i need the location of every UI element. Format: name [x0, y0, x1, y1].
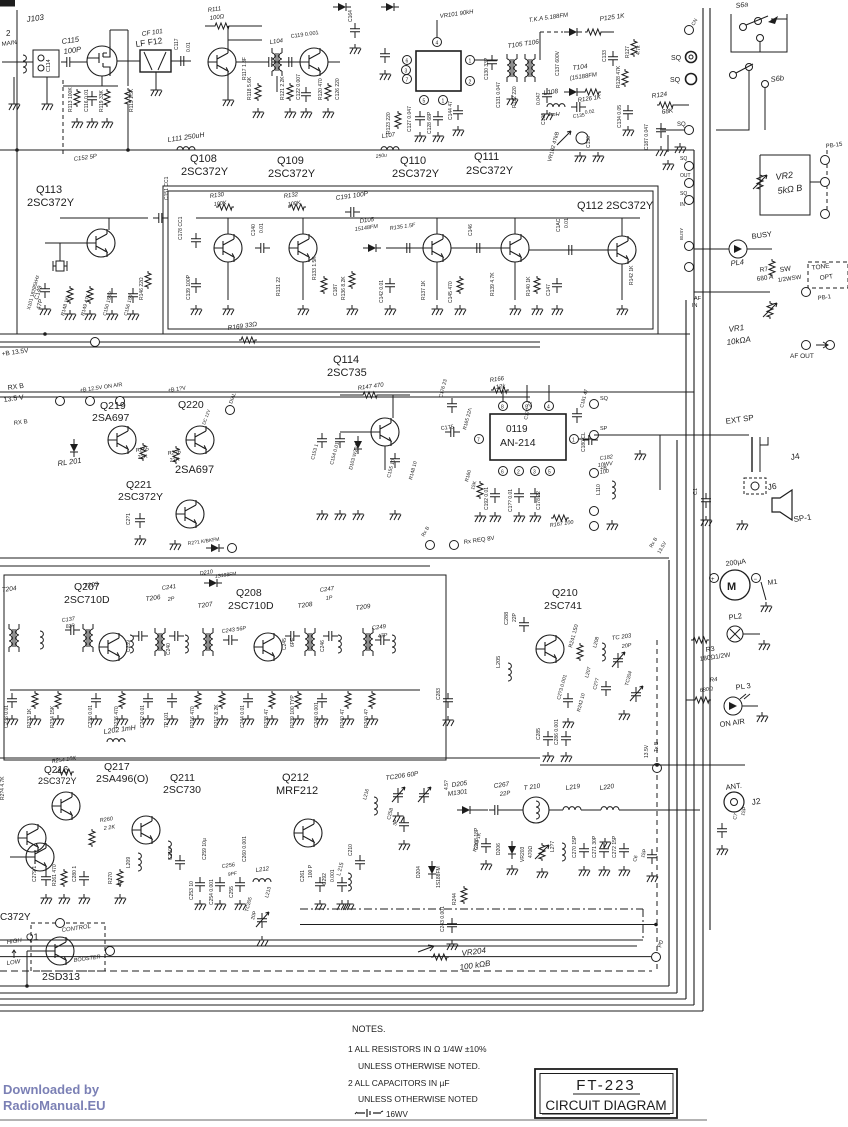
- pot VR1 arrow: [763, 303, 777, 317]
- connector J103 body: [33, 50, 59, 77]
- resistor R124: [657, 102, 675, 108]
- resistor R149: [87, 286, 93, 304]
- svg-text:C210: C210: [348, 844, 354, 856]
- wire pin4 up: [436, 20, 438, 37]
- svg-text:Tx B: Tx B: [654, 741, 660, 752]
- ground emitter net 11: [293, 715, 305, 725]
- svg-text:SP: SP: [600, 426, 608, 432]
- wire qif2 e: [302, 262, 304, 300]
- pad AFOUT: [802, 341, 811, 350]
- ground r270: [115, 894, 127, 904]
- ground C147: [552, 305, 564, 315]
- ground tc204: [619, 710, 631, 720]
- wire vcc drop: [127, 30, 129, 86]
- ground emitter net 12: [317, 715, 329, 725]
- trimmer TC206a: [392, 787, 405, 803]
- trimmer C136 body: [576, 132, 588, 144]
- svg-text:C130 33P: C130 33P: [484, 57, 490, 80]
- pad IN: [685, 196, 694, 205]
- resistor emitter net 10: [269, 691, 275, 709]
- meter plus: [710, 574, 719, 583]
- pad afout2: [826, 341, 835, 350]
- capacitor C133: [608, 51, 618, 66]
- pin 1 right: [466, 56, 475, 65]
- resistor R167: [551, 515, 569, 521]
- transistor Q219 sym: [108, 426, 136, 454]
- capacitor C283: [443, 693, 453, 708]
- capacitor C286: [561, 731, 571, 746]
- resistor emitter net 7: [195, 691, 201, 709]
- capacitor C7 sym: [717, 823, 727, 838]
- svg-text:2SC710D: 2SC710D: [64, 594, 110, 606]
- pot VR203 arrow: [535, 845, 549, 859]
- coil L111: [177, 147, 195, 150]
- pin 3b: [531, 467, 540, 476]
- svg-text:2SC372Y: 2SC372Y: [38, 776, 77, 786]
- svg-text:C255: C255: [229, 886, 235, 898]
- capacitor C176: [447, 398, 457, 413]
- coil extra2: [130, 635, 133, 653]
- coil L215 sym: [348, 873, 351, 891]
- svg-text:2 ALL CAPACITORS IN µF: 2 ALL CAPACITORS IN µF: [348, 1078, 450, 1088]
- bus vertical x669: [668, 560, 670, 986]
- pad +B pad3: [116, 397, 125, 406]
- capacitor C120: [263, 57, 278, 67]
- pin 2b: [515, 467, 524, 476]
- ground T105: [507, 95, 519, 105]
- svg-text:AF: AF: [694, 296, 702, 302]
- ground c270: [579, 866, 591, 876]
- capacitor C179: [530, 488, 540, 503]
- pad SP pad: [590, 431, 599, 440]
- wire q113 coll up: [108, 218, 110, 230]
- ground c272: [619, 866, 631, 876]
- capacitor C175: [445, 427, 460, 437]
- wire pin4 up: [548, 385, 550, 401]
- pad tone pad: [802, 288, 811, 297]
- ground emitter net 8: [217, 715, 229, 725]
- wire pad link: [667, 135, 669, 152]
- transistor Q215 sym: [26, 843, 54, 871]
- resistor R123: [395, 111, 401, 129]
- transistor Q108 sym: [208, 48, 236, 76]
- svg-text:C259 10µ: C259 10µ: [202, 838, 208, 860]
- svg-text:C246: C246: [320, 640, 326, 652]
- trimmer TC206b: [418, 787, 431, 803]
- pin 7b: [475, 435, 484, 444]
- svg-text:R115 1.5K: R115 1.5K: [129, 88, 135, 112]
- trimmer TC204: [630, 686, 643, 702]
- wire q1 drop: [26, 951, 28, 986]
- svg-text:R137 1K: R137 1K: [421, 280, 427, 300]
- svg-text:C286 0.001: C286 0.001: [554, 719, 560, 745]
- svg-text:SQ: SQ: [671, 55, 682, 62]
- resistor R138: [457, 276, 463, 294]
- svg-text:Q219: Q219: [100, 400, 126, 412]
- svg-text:C283: C283: [436, 688, 442, 700]
- ground an4: [530, 512, 542, 522]
- ground an3: [514, 512, 526, 522]
- wire strip rail drop3: [436, 218, 438, 234]
- svg-text:Q108: Q108: [190, 153, 217, 165]
- svg-text:C192 0.01: C192 0.01: [484, 487, 490, 510]
- connector J6 box: [744, 478, 766, 494]
- svg-text:Q211: Q211: [170, 772, 195, 784]
- wire vr1 l: [694, 291, 770, 293]
- svg-text:D206: D206: [496, 843, 502, 855]
- svg-text:2SC710D: 2SC710D: [228, 600, 274, 612]
- svg-text:CIRCUIT DIAGRAM: CIRCUIT DIAGRAM: [545, 1098, 666, 1113]
- IC FM detector box: [416, 51, 461, 91]
- bus horizontal y347: [0, 346, 540, 348]
- diode D206 sym: [508, 841, 516, 859]
- bus horizontal y342: [0, 341, 540, 343]
- title underline1: [573, 1093, 640, 1095]
- pad pb2: [821, 178, 830, 187]
- resistor emitter net 2: [55, 691, 61, 709]
- wire tx out5: [619, 809, 700, 811]
- wire pl4 l: [694, 248, 729, 250]
- svg-text:C151 CC1: C151 CC1: [164, 176, 170, 200]
- ground c286: [561, 752, 573, 762]
- ground q221: [170, 540, 182, 550]
- svg-text:2SC372Y: 2SC372Y: [466, 165, 514, 177]
- ground emitter net 9: [243, 715, 255, 725]
- capacitor C123: [301, 87, 311, 102]
- capacitor C246: [323, 631, 338, 641]
- bus horizontal y999: [0, 998, 686, 1000]
- svg-text:6PF: 6PF: [290, 638, 296, 647]
- diode D204 sym: [428, 861, 436, 879]
- capacitor C115: [61, 57, 76, 67]
- svg-text:R142 1K: R142 1K: [629, 265, 635, 285]
- svg-text:R3: R3: [705, 646, 715, 654]
- svg-text:R121 2.2K: R121 2.2K: [280, 76, 286, 100]
- ground emitter net 13: [343, 715, 355, 725]
- wire vr2 to pads: [810, 181, 820, 183]
- svg-text:3: 3: [405, 69, 408, 75]
- svg-text:UNLESS OTHERWISE NOTED: UNLESS OTHERWISE NOTED: [358, 1094, 478, 1104]
- capacitor C237: [65, 625, 80, 635]
- diode RL201 sym: [70, 439, 78, 457]
- svg-text:2SC372Y: 2SC372Y: [27, 197, 75, 209]
- diode D1 top: [333, 3, 351, 11]
- svg-text:SQ: SQ: [680, 191, 687, 197]
- svg-text:C270 15P: C270 15P: [572, 835, 578, 858]
- ground J103: [9, 100, 21, 110]
- svg-text:UNLESS OTHERWISE NOTED.: UNLESS OTHERWISE NOTED.: [358, 1061, 480, 1071]
- capacitor C pre-ic: [350, 23, 360, 38]
- svg-text:4.5?: 4.5?: [444, 780, 450, 790]
- ground c243c: [447, 940, 459, 950]
- ground L110: [607, 520, 619, 530]
- switch S6a c3: [757, 35, 764, 42]
- pad pad511: [590, 507, 599, 516]
- meter minus: [752, 574, 761, 583]
- transistor Q210 sym: [536, 635, 564, 663]
- junction bus1: [15, 148, 19, 152]
- wire q108 coll: [227, 26, 229, 48]
- bus horizontal y924: [300, 924, 657, 926]
- svg-text:470Ω: 470Ω: [528, 846, 534, 858]
- xfmr T208 sym: [305, 628, 315, 656]
- filter CF101 box: [140, 50, 171, 72]
- svg-text:2: 2: [6, 29, 11, 38]
- svg-text:6: 6: [501, 470, 504, 476]
- wire r147 l: [340, 394, 361, 396]
- wire c115 to fet: [76, 61, 87, 63]
- svg-text:22P: 22P: [512, 612, 518, 622]
- capacitor C243c: [447, 918, 457, 933]
- svg-text:R113 100K: R113 100K: [68, 87, 74, 112]
- filter CF101 diag2: [158, 52, 166, 70]
- ground R121: [285, 108, 297, 118]
- ground emitter net 6: [167, 715, 179, 725]
- bus horizontal y392: [0, 391, 694, 393]
- ground c285: [543, 752, 555, 762]
- capacitor C243: [223, 635, 238, 645]
- capacitor C127: [415, 111, 425, 126]
- wire r115 down: [127, 106, 129, 150]
- resistor R261: [61, 869, 67, 887]
- svg-text:1: 1: [469, 59, 472, 65]
- capacitor C134: [623, 105, 633, 120]
- capacitor C254: [215, 877, 225, 892]
- wire qif4 b: [451, 247, 501, 249]
- wire q112 e: [621, 264, 623, 300]
- wire fet top rail: [110, 29, 128, 31]
- svg-text:C1?? 0.01: C1?? 0.01: [508, 489, 514, 512]
- svg-text:Q110: Q110: [400, 155, 426, 167]
- capacitor C150: [107, 288, 117, 303]
- svg-text:Q216: Q216: [44, 765, 69, 776]
- transistor Q221 sym: [176, 500, 204, 528]
- bus horizontal y334: [0, 333, 690, 335]
- capacitor C207b: [601, 681, 611, 696]
- svg-text:AN-214: AN-214: [500, 437, 536, 449]
- svg-text:R240 4?: R240 4?: [364, 709, 370, 728]
- switch S6b c1: [730, 72, 737, 79]
- svg-text:C253 10: C253 10: [189, 881, 195, 900]
- resistor emitter net 4: [119, 691, 125, 709]
- bus dashed y971: [0, 970, 652, 972]
- svg-text:0.01: 0.01: [186, 42, 192, 52]
- svg-text:7: 7: [477, 438, 480, 444]
- resistor R147: [361, 392, 379, 398]
- ground C topmid: [380, 70, 392, 80]
- coil L-1mH: [547, 104, 565, 107]
- xfmr T206 sym: [155, 628, 165, 656]
- svg-text:0.001: 0.001: [330, 869, 336, 882]
- resistor emitter net 12: [317, 693, 327, 708]
- resistor R119: [104, 89, 110, 107]
- resistor emitter net 1: [32, 691, 38, 709]
- connector TONE OPT box: [808, 262, 848, 288]
- wire r117 right: [231, 25, 262, 27]
- xfmr T207 sym: [203, 628, 213, 656]
- diode D105sq: [564, 88, 582, 96]
- svg-text:2SC730: 2SC730: [163, 784, 201, 796]
- wire pin8 up: [502, 390, 504, 401]
- ground R135: [347, 305, 359, 315]
- ground c254: [215, 900, 227, 910]
- wire tx out: [474, 809, 488, 811]
- svg-text:R120 470: R120 470: [318, 78, 324, 100]
- capacitor C245: [285, 631, 300, 641]
- svg-text:PL2: PL2: [728, 611, 742, 622]
- diode D205 sym: [457, 806, 475, 814]
- resistor emitter net 14: [369, 691, 375, 709]
- bus horizontal y956: [0, 956, 651, 958]
- ground C114: [42, 100, 54, 110]
- ground c6: [647, 872, 659, 882]
- pad SQ4: [685, 162, 694, 171]
- wire sq mid: [581, 91, 583, 93]
- ground R138: [455, 305, 467, 315]
- ground c279: [41, 894, 53, 904]
- trimmer TC203: [612, 652, 625, 668]
- coil L220 sym: [601, 807, 619, 810]
- pad pb1: [821, 156, 830, 165]
- wire filter out: [171, 60, 191, 62]
- pot VR204 arrow: [418, 945, 434, 952]
- ground C155: [390, 510, 402, 520]
- resistor R3: [691, 637, 709, 643]
- resistor R146: [145, 271, 151, 289]
- capacitor C1 sp: [701, 493, 711, 508]
- pad rxb pad: [426, 541, 435, 550]
- ground Qif1 e: [223, 305, 235, 315]
- svg-text:C210: C210: [168, 848, 174, 860]
- wire strip rail drop1: [227, 218, 229, 234]
- ground c253: [195, 900, 207, 910]
- capacitor C148: [563, 245, 578, 255]
- resistor R1xx: [585, 29, 603, 35]
- svg-text:C164: C164: [348, 10, 354, 22]
- pad AF: [685, 242, 694, 251]
- svg-text:0.01: 0.01: [564, 218, 570, 228]
- svg-text:0.01: 0.01: [259, 223, 265, 233]
- wire q1 left: [27, 950, 46, 952]
- transistor Q208 sym: [254, 633, 282, 661]
- ground C151: [128, 310, 140, 320]
- ground l215: [343, 900, 355, 910]
- capacitor C261: [315, 877, 325, 892]
- svg-text:2SC372Y: 2SC372Y: [118, 491, 163, 503]
- resistor VR204 sym: [431, 954, 449, 960]
- svg-text:2P: 2P: [166, 596, 175, 603]
- wire sp wire1: [594, 434, 749, 436]
- svg-text:C285: C285: [536, 728, 542, 740]
- svg-text:C260 0.001: C260 0.001: [242, 836, 248, 862]
- capacitor C153: [317, 433, 327, 448]
- svg-text:C136: C136: [586, 136, 592, 148]
- svg-text:2SC372Y: 2SC372Y: [181, 166, 229, 178]
- ground q210e: [563, 718, 575, 728]
- led PL3 arrows: [740, 694, 750, 699]
- svg-text:R244: R244: [452, 893, 458, 905]
- bus horizontal y946: [0, 945, 637, 947]
- capacitor C210c: [355, 855, 365, 870]
- resistor R130: [216, 204, 234, 210]
- svg-text:R140 1K: R140 1K: [526, 276, 532, 296]
- ground emitter net 0: [7, 715, 19, 725]
- arrow afout: [816, 342, 828, 348]
- svg-text:C187: C187: [333, 284, 339, 296]
- capacitor C233b: [563, 693, 573, 708]
- svg-text:L110: L110: [596, 484, 602, 495]
- transistor Q1 sym: [46, 937, 74, 965]
- ground C142: [385, 305, 397, 315]
- svg-text:R119 33K: R119 33K: [99, 89, 105, 112]
- wire r117 left: [205, 25, 213, 27]
- svg-text:VR203: VR203: [520, 846, 526, 862]
- xfmr T106: [525, 54, 535, 82]
- resistor R127: [631, 39, 637, 57]
- pad pad526: [590, 522, 599, 531]
- left border x17: [16, 10, 18, 334]
- svg-text:J2: J2: [751, 796, 762, 807]
- svg-text:+B: +B: [600, 466, 607, 472]
- wire ic to t105: [475, 59, 498, 61]
- svg-text:C137 600V: C137 600V: [555, 50, 561, 76]
- pin 8: [499, 402, 508, 411]
- wire pl3 r: [742, 705, 758, 707]
- resistor R169sym: [239, 337, 257, 343]
- diode D105 sym: [363, 244, 381, 252]
- junction txb: [655, 763, 659, 767]
- pin 9: [523, 402, 532, 411]
- svg-text:R133 1.5K: R133 1.5K: [312, 256, 318, 280]
- wire xtal drop: [59, 243, 61, 261]
- pad +B pad1: [56, 397, 65, 406]
- capacitor C178: [514, 488, 524, 503]
- pad SQ1 inner: [689, 55, 693, 59]
- resistor R118: [255, 83, 261, 101]
- ground C283: [443, 716, 455, 726]
- capacitor C249: [375, 635, 390, 645]
- ground Cq221: [135, 535, 147, 545]
- capacitor C155: [390, 453, 400, 468]
- wire strip bottom rail: [10, 689, 420, 691]
- wire pb15 dash v: [826, 150, 828, 215]
- wire q109 out: [328, 61, 340, 63]
- capacitor C187: [656, 123, 666, 138]
- svg-text:R4: R4: [709, 677, 718, 684]
- svg-text:100 P: 100 P: [308, 864, 314, 878]
- wire tx out3: [549, 809, 563, 811]
- bus horizontal y397: [0, 396, 530, 398]
- transistor Q113 sym: [87, 229, 115, 257]
- jack J4 sym: [751, 437, 753, 472]
- bus horizontal y940: [0, 939, 643, 941]
- svg-text:13.5V: 13.5V: [644, 744, 650, 758]
- capacitor C151: [128, 288, 138, 303]
- pin 5 bottom: [420, 96, 429, 105]
- switch S6b c3: [762, 81, 769, 88]
- wire qif3 b: [386, 247, 423, 249]
- IC AN-214 box: [490, 414, 566, 460]
- ground c292: [337, 900, 349, 910]
- ground C139: [191, 305, 203, 315]
- switch S6a frame: [731, 14, 787, 52]
- transistor Q211 sym: [132, 816, 160, 844]
- capacitor C144: [453, 105, 463, 120]
- pin 4 top: [433, 38, 442, 47]
- capacitor C143: [401, 243, 416, 253]
- svg-text:C1AC: C1AC: [556, 218, 562, 232]
- svg-text:1: 1: [572, 438, 575, 444]
